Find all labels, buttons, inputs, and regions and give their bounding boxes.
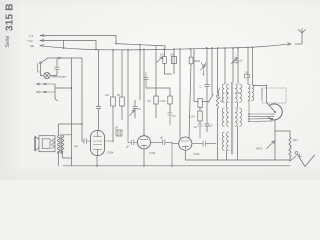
resistor wavy x216: [216, 48, 218, 160]
wire T2-T3 link x63.6: [63, 41, 65, 49]
resistor R mid2: [198, 111, 202, 121]
wire long vertical x71.5: [71, 58, 73, 166]
wire tube V3 left: [172, 143, 179, 145]
wire tube V2 right with capacitor: [151, 140, 172, 166]
tube V3 envelope: [179, 137, 192, 150]
rotary selector switch arc: [269, 104, 283, 120]
capacitor C uF right: [205, 85, 209, 133]
component right of tube V1: [105, 140, 114, 142]
wire segment y39: [116, 44, 165, 50]
wire terminal2 line: [40, 41, 96, 50]
loudspeaker body: [39, 136, 55, 152]
svg-text:µF: µF: [160, 136, 164, 140]
transformer T1 core lines: [231, 82, 232, 154]
transformer T1 primary p1a left edge: [222, 84, 224, 102]
svg-text:C/04: C/04: [149, 151, 156, 155]
resistor R right: [189, 57, 193, 64]
wire drop x212: [211, 48, 213, 95]
terminal arrow 3: [40, 45, 44, 47]
svg-text:1M: 1M: [105, 93, 109, 97]
resistor R 100: [163, 57, 167, 64]
capacitor C_sw: [55, 59, 59, 73]
wire x174 stub: [173, 49, 175, 74]
output tube electrodes: [94, 131, 102, 156]
voltage selector box: [262, 88, 286, 103]
svg-text:(µF: (µF: [74, 144, 78, 148]
earth circle: [295, 152, 298, 155]
antenna symbol: [295, 29, 306, 45]
earth arrow tick: [299, 154, 302, 157]
output transformer winding L: [57, 136, 60, 154]
wire drop x190 tube B: [189, 64, 191, 139]
svg-text:C/04: C/04: [193, 152, 200, 156]
trimmer bars: [234, 61, 239, 63]
potentiometer body: [198, 99, 202, 108]
tapped winding W3 right edge: [252, 84, 254, 101]
wire R mid1 stubs: [155, 46, 157, 118]
switch S1: [41, 58, 82, 63]
svg-text:µF: µF: [194, 125, 198, 129]
capacitor left of output tube: [82, 139, 91, 144]
fuse block: [244, 74, 249, 78]
capacitor below R mid2b: [168, 113, 172, 125]
pickup terminal arrow TA2: [37, 91, 56, 93]
wire drop x113: [112, 50, 114, 142]
resistor R 1M: [111, 97, 116, 106]
voice coil zigzag: [52, 139, 55, 149]
svg-text:0,1M: 0,1M: [189, 115, 196, 119]
capacitor on x98.5: [96, 106, 100, 130]
trim arrow at C x135: [130, 110, 135, 116]
wire selector down: [275, 120, 290, 160]
capacitor block right of V1: [116, 130, 122, 136]
wire tube V1 bottom: [96, 156, 98, 167]
wire grid vertical x82: [81, 58, 83, 141]
transformer T1 primary p1a right edge: [227, 84, 229, 102]
transformer T1 secondary s1b right edge: [240, 108, 242, 126]
output transformer core: [60, 134, 61, 154]
wire hline y88: [146, 87, 170, 89]
wire second feed: [261, 88, 263, 100]
wire bottom segment y160: [185, 159, 275, 161]
lamp (Skalenlampe): [44, 72, 50, 78]
tap dots: [248, 113, 274, 122]
wire W3 to switch: [253, 85, 267, 87]
wire drop x98.5: [98, 50, 100, 107]
wire R right stubs: [190, 49, 192, 57]
bottom bus: [63, 165, 290, 167]
transformer T1 primary p1b right edge: [227, 108, 229, 126]
svg-text:µF: µF: [240, 59, 243, 63]
wire TA join: [55, 84, 72, 101]
earth V symbol: [298, 155, 315, 167]
svg-text:AE: AE: [30, 44, 34, 48]
arrowhead on switch line: [58, 57, 62, 59]
arrowhead mid TA1: [44, 83, 47, 85]
trimmer arrow near transformer: [232, 58, 238, 64]
tube V2 electrodes: [141, 140, 149, 148]
arrowhead top bus: [288, 43, 292, 46]
transformer T1 primary p1c left edge: [222, 132, 224, 150]
variable arrow into R100: [157, 57, 163, 63]
wire drop x144 tube A grid: [143, 49, 145, 136]
wire drop x238: [237, 48, 239, 84]
taps to selector: [249, 100, 274, 122]
wire arm feed: [266, 86, 268, 103]
svg-text:220: 220: [245, 71, 250, 74]
wire drop x207: [206, 48, 208, 85]
svg-text:50: 50: [117, 93, 120, 97]
transformer T1 secondary s1a right edge: [240, 84, 242, 102]
svg-text:315 B: 315 B: [5, 3, 16, 31]
output transformer winding R: [61, 136, 64, 154]
svg-text:µF: µF: [115, 126, 119, 130]
loudspeaker cone: [35, 137, 39, 151]
resistor R 0,1: [120, 97, 125, 106]
resistor R mid1: [154, 96, 158, 104]
transformer T1 primary p1c right edge: [227, 132, 229, 150]
wire x200: [199, 108, 201, 125]
resistor R mid2b: [168, 96, 172, 104]
wire drop x128: [127, 50, 129, 130]
mechanical link hook: [38, 64, 40, 73]
tube V3 electrodes: [182, 141, 190, 149]
wire drop x140: [139, 45, 141, 100]
wire tube V3 right with capacitor: [192, 141, 216, 146]
terminal arrow 1: [40, 35, 44, 37]
fork symbol with arrow: [200, 62, 205, 74]
svg-text:1,9: 1,9: [29, 34, 34, 38]
arrowhead mid TA2: [44, 91, 47, 93]
capacitor on x146: [144, 73, 148, 89]
wire top bus: [40, 44, 291, 50]
terminal arrow 2: [40, 40, 44, 42]
wire lamp: [41, 64, 58, 76]
wire tube V2 bottom: [143, 149, 145, 166]
tapped winding W3 left edge: [248, 84, 250, 101]
wire W3 top: [252, 47, 254, 84]
wire terminal1 top line: [40, 36, 116, 44]
svg-text:µF: µF: [138, 107, 142, 111]
wire tube V3 bottom: [184, 150, 186, 160]
wire drop x248: [247, 48, 249, 85]
svg-text:C/04: C/04: [107, 151, 114, 155]
svg-text:µF: µF: [126, 145, 130, 149]
wire drop x233: [232, 48, 234, 82]
resistor wavy pot: [289, 131, 291, 161]
svg-text:7,02: 7,02: [27, 39, 33, 43]
svg-text:Skalenlampe: Skalenlampe: [51, 75, 67, 79]
svg-text:µF: µF: [210, 124, 214, 128]
switch lever: [202, 94, 213, 102]
wire x164.5 stub: [165, 49, 172, 74]
output tube V1 envelope: [91, 131, 105, 156]
tube V2 envelope: [137, 136, 150, 149]
bottom bus junction dots: [96, 165, 173, 167]
transformer T1 secondary s1a left edge: [235, 84, 237, 102]
selector wiper arm: [267, 103, 276, 113]
pot arrow: [267, 141, 275, 149]
svg-text:503: 503: [293, 138, 298, 142]
transformer T1 secondary s1b left edge: [235, 108, 237, 126]
wires transformer stubs: [226, 93, 239, 160]
title "Seite 315 B" rotated: [5, 3, 16, 47]
wire R mid2b stubs: [169, 88, 171, 113]
svg-text:Seite: Seite: [5, 36, 11, 48]
svg-text:0,1M: 0,1M: [160, 99, 167, 103]
wire tube V2 left: [128, 130, 137, 145]
wire drop x194: [194, 49, 198, 102]
svg-text:1000: 1000: [194, 59, 200, 63]
capacitor below R mid2: [198, 124, 202, 138]
wire pot bottom link: [275, 156, 296, 161]
wire drop x180 tube B: [179, 49, 181, 138]
bracket arc left of transformer: [218, 88, 219, 98]
junction dots on top bus: [63, 43, 254, 125]
wire drop x225: [224, 48, 226, 84]
wires output transformer: [59, 124, 82, 166]
svg-text:4P01: 4P01: [256, 147, 263, 151]
svg-text:µF: µF: [173, 114, 177, 118]
capacitor C x135: [133, 100, 137, 118]
wire drop x122: [121, 50, 123, 120]
loudspeaker inner magnet: [42, 139, 50, 149]
capacitor C in rect: [171, 57, 176, 64]
transformer T1 primary p1b left edge: [222, 108, 224, 126]
svg-text:50: 50: [148, 99, 151, 103]
pickup terminal arrow TA1: [37, 83, 56, 85]
svg-text:C: C: [200, 85, 202, 89]
